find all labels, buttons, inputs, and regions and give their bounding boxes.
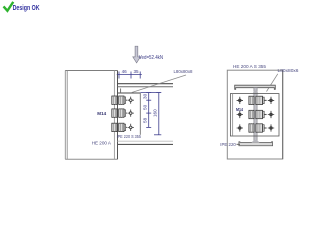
svg-text:IPE 220: IPE 220 bbox=[220, 142, 236, 148]
column HE 200 A (left view) bbox=[65, 71, 117, 160]
bolt M14 left view row 1 bbox=[112, 96, 117, 104]
svg-text:M14: M14 bbox=[236, 107, 243, 112]
svg-text:Design OK: Design OK bbox=[13, 3, 40, 12]
bolts M14 (right view, 3 rows) bbox=[249, 96, 267, 132]
angle cleats outline (right view) bbox=[230, 94, 279, 136]
horizontal dimension 46 / 35 bbox=[117, 72, 142, 79]
bolt M14 right view row 1 bbox=[249, 96, 254, 104]
leader to L80x80x6 label bbox=[267, 74, 278, 92]
svg-text:30: 30 bbox=[142, 93, 147, 99]
vertical dimension 30/50/58 bbox=[146, 93, 151, 128]
svg-text:50: 50 bbox=[142, 104, 147, 110]
svg-text:L80x80x6: L80x80x6 bbox=[278, 68, 299, 74]
bolt axis crosses (right view) bbox=[237, 97, 275, 132]
load arrow Ved bbox=[133, 46, 141, 63]
svg-text:46: 46 bbox=[122, 69, 128, 74]
IPE 220 web (section) bbox=[254, 88, 257, 143]
svg-text:Ved=52.4kN: Ved=52.4kN bbox=[139, 55, 163, 61]
status check mark bbox=[4, 3, 12, 11]
svg-text:35: 35 bbox=[133, 69, 139, 74]
beam IPE 220 top flange (left view) bbox=[118, 83, 174, 85]
svg-text:IPE 220 S 355: IPE 220 S 355 bbox=[117, 134, 142, 140]
bolt axis crosses (left view) bbox=[128, 97, 134, 131]
bolt M14 left view row 3 bbox=[112, 123, 117, 131]
column flange outline (section view) bbox=[227, 70, 282, 159]
bolt M14 right view row 3 bbox=[249, 124, 254, 132]
svg-text:L80x80x8: L80x80x8 bbox=[174, 69, 193, 75]
leader to L80x80x8 label bbox=[131, 75, 186, 93]
bolts M14 (left view, 3 rows) bbox=[112, 96, 127, 132]
IPE 220 bottom flange (section) bbox=[239, 142, 273, 146]
angle cleat L80x80x8 (left view) bbox=[118, 92, 141, 94]
svg-text:HE 200 A: HE 200 A bbox=[92, 140, 112, 146]
svg-text:160: 160 bbox=[152, 109, 157, 117]
vertical dimension 160 bbox=[140, 93, 161, 135]
svg-text:HE 200 A S 355: HE 200 A S 355 bbox=[233, 64, 266, 70]
beam IPE 220 bottom flange (left view) bbox=[118, 140, 174, 142]
svg-text:M14: M14 bbox=[97, 111, 106, 116]
bolt M14 right view row 2 bbox=[249, 110, 254, 118]
bolt M14 left view row 2 bbox=[112, 109, 117, 117]
IPE 220 top flange (section) bbox=[235, 85, 276, 89]
svg-text:58: 58 bbox=[142, 117, 147, 123]
